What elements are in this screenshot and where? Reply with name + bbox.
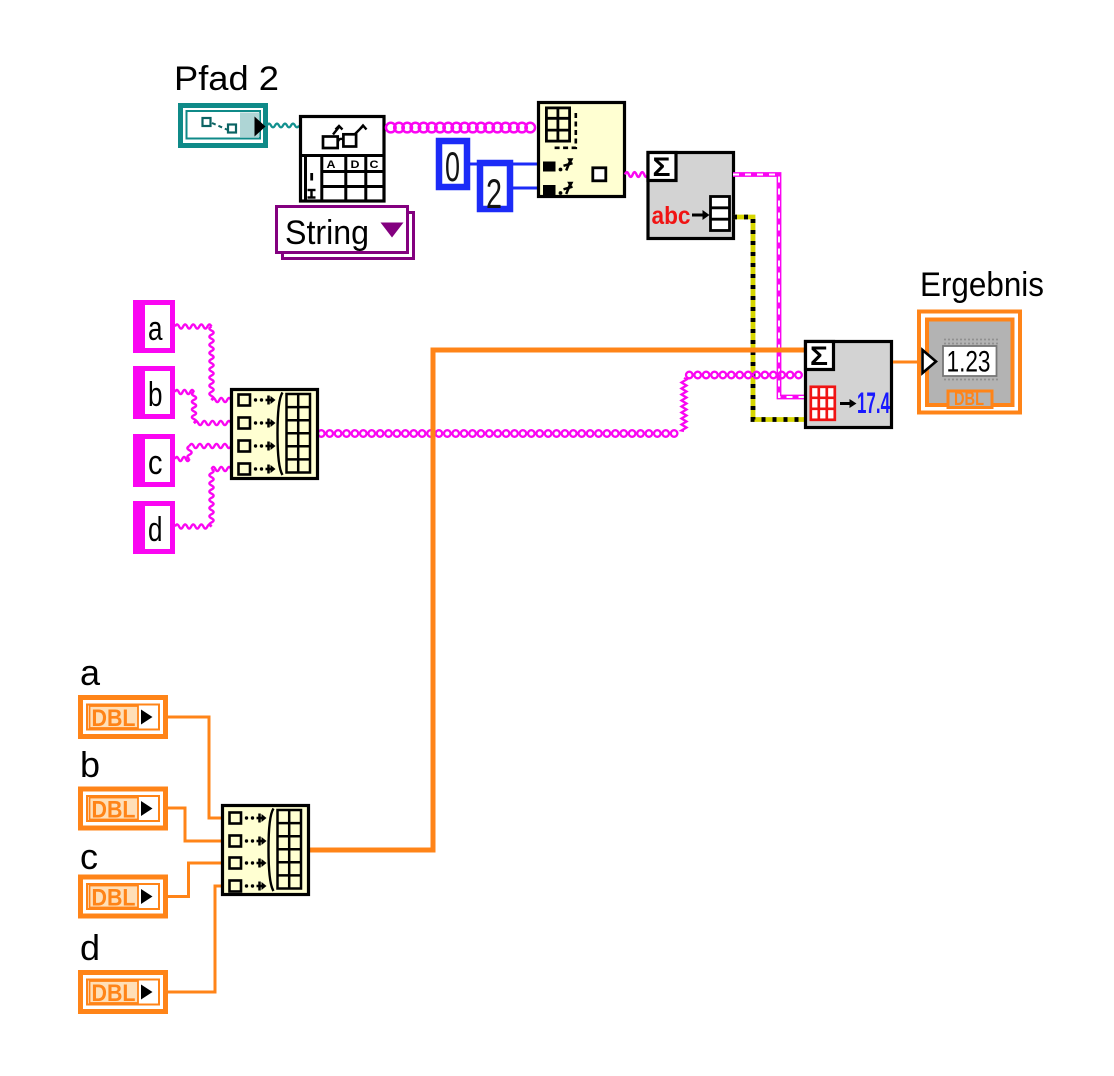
wire string d to Build Array xyxy=(175,467,231,529)
wire DBL d to Build Array 2 xyxy=(168,886,222,992)
svg-text:c: c xyxy=(80,836,98,877)
Build Array node DBL xyxy=(223,806,309,895)
subVI U3 sigma matrix to DBL xyxy=(806,341,892,428)
numeric constant 0 xyxy=(439,141,467,190)
indicator Ergebnis DBL xyxy=(919,312,1020,413)
svg-text:Pfad 2: Pfad 2 xyxy=(174,60,279,98)
svg-text:d: d xyxy=(148,511,163,549)
svg-text:Σ: Σ xyxy=(810,341,828,371)
wire error U2 to U3 xyxy=(733,217,805,420)
wire string b to Build Array xyxy=(175,390,231,425)
wire string Index Array to U2 xyxy=(625,172,648,177)
svg-text:abc: abc xyxy=(652,202,691,230)
label c xyxy=(80,836,98,877)
svg-text:b: b xyxy=(148,376,163,414)
wire string a to Build Array xyxy=(175,324,231,402)
wire path control to Read VI xyxy=(267,124,299,128)
svg-text:String: String xyxy=(285,214,369,252)
wire 2D string array VI to Index Array xyxy=(386,123,535,133)
path control Pfad 2 xyxy=(181,106,266,146)
string constant a xyxy=(133,300,173,353)
svg-text:a: a xyxy=(148,310,163,348)
wire DBL c to Build Array 2 xyxy=(168,863,222,897)
label Pfad 2 xyxy=(174,60,279,98)
svg-text:DBL: DBL xyxy=(954,389,984,410)
svg-text:DBL: DBL xyxy=(92,885,136,912)
string constant b xyxy=(133,366,173,419)
svg-text:c: c xyxy=(148,444,163,482)
svg-text:DBL: DBL xyxy=(92,980,136,1007)
polymorphic selector String xyxy=(277,207,414,259)
wire numeric 2 to Index Array xyxy=(512,187,538,190)
svg-text:Ergebnis: Ergebnis xyxy=(920,266,1044,304)
Index Array node xyxy=(539,103,625,197)
numeric control DBL d xyxy=(81,973,166,1012)
Read Spreadsheet File VI U1 xyxy=(301,117,385,202)
label b xyxy=(80,744,100,785)
svg-text:DBL: DBL xyxy=(92,705,136,732)
label a xyxy=(80,652,101,693)
wire DBL a to Build Array 2 xyxy=(168,717,222,818)
svg-text:D: D xyxy=(351,159,360,171)
label d xyxy=(80,927,100,968)
Build Array node strings xyxy=(232,390,318,479)
wire DBL U3 to Ergebnis xyxy=(893,361,922,364)
numeric constant 2 xyxy=(480,163,510,217)
wire string c to Build Array xyxy=(175,444,231,461)
svg-text:C: C xyxy=(370,159,379,171)
svg-text:a: a xyxy=(80,652,101,693)
svg-text:0: 0 xyxy=(445,143,460,190)
svg-text:2: 2 xyxy=(486,170,502,217)
svg-text:17.4: 17.4 xyxy=(857,387,890,420)
numeric control DBL b xyxy=(81,789,166,828)
svg-text:Σ: Σ xyxy=(653,152,671,182)
wire 1D DBL array to U3 xyxy=(310,350,805,850)
svg-text:d: d xyxy=(80,927,100,968)
svg-text:DBL: DBL xyxy=(92,797,136,824)
numeric control DBL a xyxy=(81,698,166,737)
label Ergebnis xyxy=(920,266,1044,304)
subVI U2 sigma abc xyxy=(648,152,734,239)
string constant d xyxy=(133,501,173,554)
numeric control DBL c xyxy=(81,877,166,916)
wire numeric 0 to Index Array xyxy=(469,163,538,166)
wire 2D string U2 to U3 xyxy=(733,175,805,398)
svg-text:A: A xyxy=(327,159,336,171)
svg-text:b: b xyxy=(80,744,100,785)
string constant c xyxy=(133,434,173,487)
wire 1D string array to U3 xyxy=(318,372,802,437)
wire DBL b to Build Array 2 xyxy=(168,808,222,841)
svg-text:1.23: 1.23 xyxy=(947,346,991,379)
